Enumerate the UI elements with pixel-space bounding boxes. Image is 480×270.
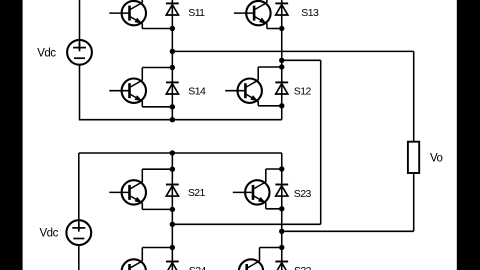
svg-text:S24: S24 xyxy=(189,265,207,270)
svg-text:Vdc: Vdc xyxy=(37,48,56,60)
svg-text:S14: S14 xyxy=(188,86,206,98)
svg-text:S21: S21 xyxy=(188,187,206,199)
svg-text:S11: S11 xyxy=(188,7,205,19)
svg-text:S13: S13 xyxy=(301,7,319,19)
svg-text:Vo: Vo xyxy=(430,153,443,165)
svg-text:S22: S22 xyxy=(294,265,312,270)
svg-text:S12: S12 xyxy=(294,86,312,98)
svg-text:S23: S23 xyxy=(294,188,312,200)
svg-text:Vdc: Vdc xyxy=(40,227,59,239)
